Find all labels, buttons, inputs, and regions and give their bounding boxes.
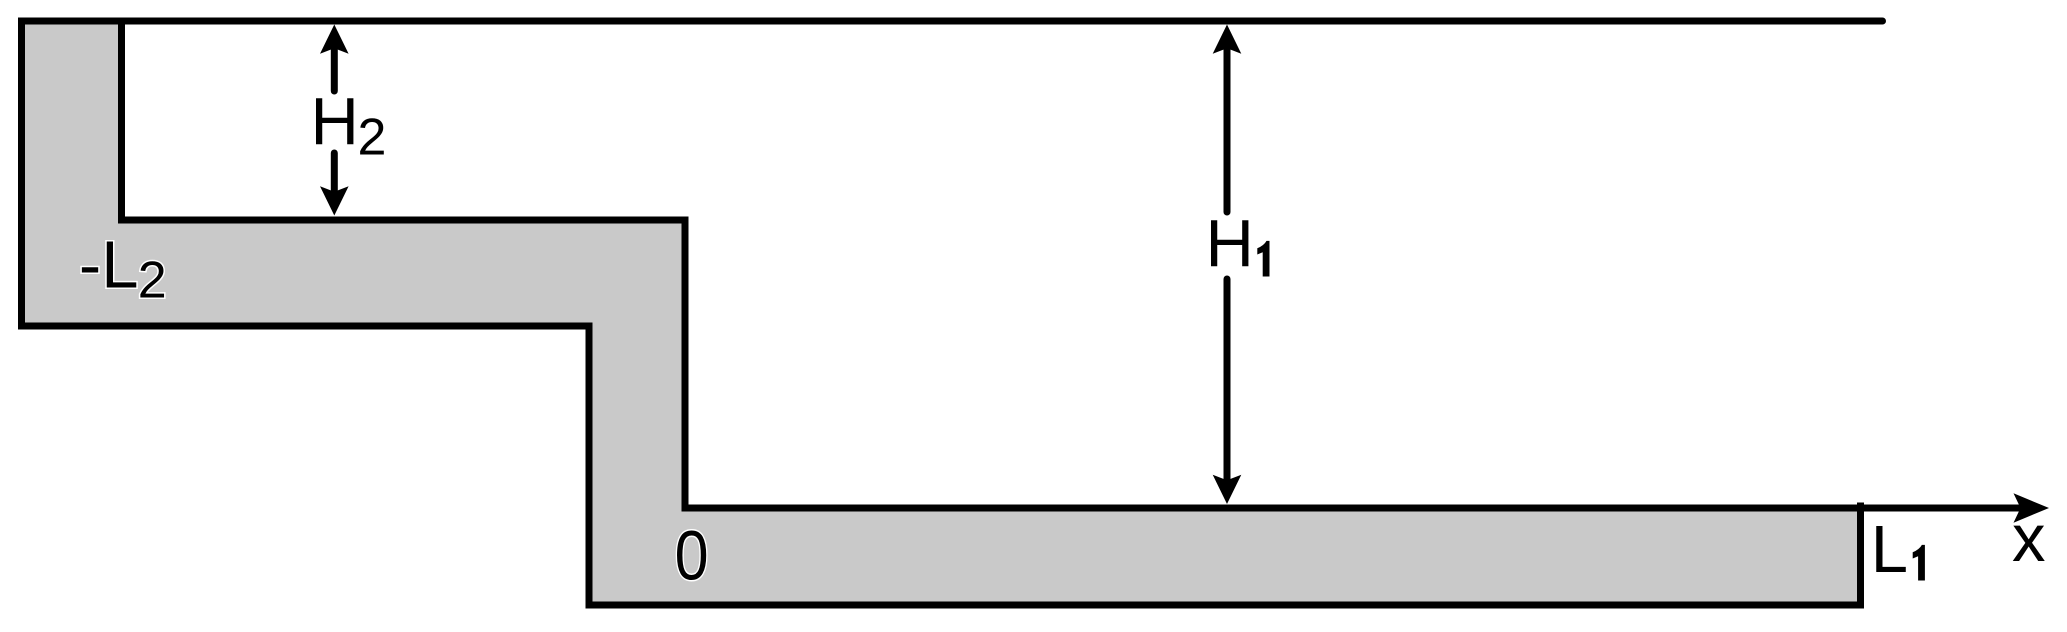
svg-text:2: 2	[358, 109, 387, 167]
dimension arrow H1 upper head	[1213, 25, 1242, 54]
x-axis arrowhead	[2014, 493, 2050, 522]
svg-text:2: 2	[138, 252, 167, 310]
svg-text:x: x	[2012, 501, 2046, 576]
dimension arrow H1 upper shaft	[1224, 42, 1231, 212]
dimension arrow H2 lower head	[320, 186, 349, 215]
svg-text:L: L	[1871, 512, 1908, 587]
svg-text:0: 0	[675, 517, 709, 595]
top wall line	[22, 18, 1883, 25]
x-axis line	[1861, 505, 2041, 512]
dimension arrow H1 lower shaft	[1224, 279, 1231, 488]
label H1 subscript 1 (custom glyph)	[1257, 241, 1269, 277]
svg-text:H: H	[1206, 207, 1254, 282]
dimension arrow H1 lower head	[1213, 475, 1242, 504]
svg-text:-L: -L	[79, 227, 139, 302]
label L1 subscript 1 (custom glyph)	[1913, 545, 1925, 581]
svg-text:H: H	[311, 85, 359, 160]
wall right edge cap	[1857, 503, 1864, 516]
dimension arrow H2 upper head	[320, 25, 349, 54]
dimension arrow H2 upper shaft	[331, 42, 338, 91]
dimension arrow H2 lower shaft	[331, 153, 338, 197]
